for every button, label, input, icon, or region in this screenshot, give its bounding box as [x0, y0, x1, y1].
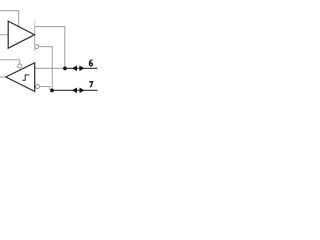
wire pin 6 bus line: [65, 67, 98, 69]
wire RE enable from left, corner down to bubble: [0, 60, 20, 64]
wire B-net: bubble right, down to pin7 junction: [39, 47, 53, 91]
wire pin 7 bus line: [52, 89, 98, 91]
op-amp U2 receiver triangle (points left): [6, 63, 35, 92]
arrow pair pin 7: [72, 87, 77, 93]
pin number 6: [89, 60, 92, 66]
bubble receiver enable: [18, 64, 22, 68]
wire A-net: apex up, right, down to pin6 junction: [35, 27, 65, 69]
pin number 7: [89, 82, 92, 88]
wire vertical bus at driver apex (A/B tap): [34, 20, 36, 27]
node A junction dot pin6: [63, 67, 67, 71]
wire DE enable from left, corner down to driver top edge: [0, 11, 19, 27]
hysteresis symbol inside receiver: [22, 75, 29, 80]
wire receiver top input (A) to pin6 junction: [35, 67, 65, 69]
bubble receiver inverting input (B): [36, 85, 40, 89]
bubble driver inverted output: [35, 45, 39, 49]
op-amp U1 driver triangle: [8, 21, 34, 48]
wire D input to driver left edge: [0, 34, 8, 36]
wire receiver B input to pin7 junction: [40, 87, 50, 90]
wire R output from receiver apex to left: [0, 76, 6, 78]
node B junction dot pin7: [50, 89, 54, 93]
arrow pair pin 6: [72, 65, 77, 71]
